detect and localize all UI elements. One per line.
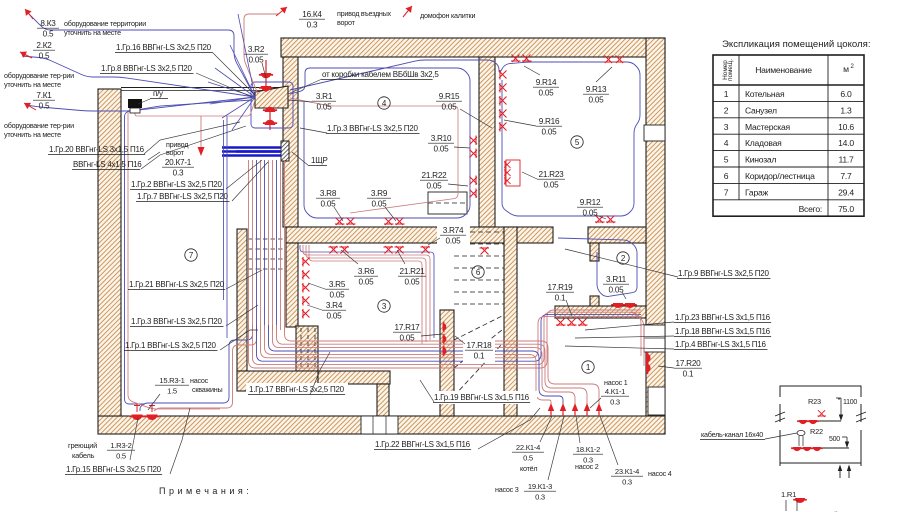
svg-text:1.Гр.20 ВВГнг-LS 3х1,5 П16: 1.Гр.20 ВВГнг-LS 3х1,5 П16 xyxy=(49,145,145,154)
p/u device black square xyxy=(128,99,142,108)
staircase treads xyxy=(454,231,504,233)
garage blue wire xyxy=(125,100,253,404)
svg-text:1.Гр.19 ВВГнг-LS 3х1,5 П16: 1.Гр.19 ВВГнг-LS 3х1,5 П16 xyxy=(434,393,530,402)
through-wall lines to Gr23/18/4 labels xyxy=(585,322,674,330)
svg-text:0.05: 0.05 xyxy=(589,96,605,105)
svg-text:1.Гр.22 ВВГнг-LS 3х1,5 П16: 1.Гр.22 ВВГнг-LS 3х1,5 П16 xyxy=(375,440,471,449)
interior wall below rooms 4-5 (left part) xyxy=(286,227,553,243)
door in right wall bottom xyxy=(648,387,665,415)
svg-text:1.Гр.15 ВВГнг-LS 3х2,5 П20: 1.Гр.15 ВВГнг-LS 3х2,5 П20 xyxy=(66,465,162,474)
fan wires into panel from left/top xyxy=(238,14,255,97)
room1 floor riser arrows xyxy=(550,406,552,416)
svg-text:3: 3 xyxy=(724,122,729,132)
svg-text:греющий: греющий xyxy=(68,441,97,450)
svg-text:оборудование территории: оборудование территории xyxy=(64,19,146,28)
privod vorot red drop xyxy=(200,116,202,148)
svg-text:0.3: 0.3 xyxy=(173,169,184,178)
entry vertical wall xyxy=(283,57,298,227)
svg-text:0.05: 0.05 xyxy=(427,182,443,191)
room2 west wall upper xyxy=(590,243,599,261)
south wall west part xyxy=(237,371,318,391)
top exterior wall xyxy=(281,38,665,57)
svg-text:Котельная: Котельная xyxy=(745,89,785,99)
riser to arrow 5 xyxy=(285,325,600,404)
svg-text:5: 5 xyxy=(724,155,729,165)
svg-text:насос: насос xyxy=(190,376,209,385)
svg-text:21.R23: 21.R23 xyxy=(539,170,565,179)
svg-text:0.5: 0.5 xyxy=(523,454,533,463)
right exterior wall xyxy=(646,38,665,434)
nested cable loops room6/room1 xyxy=(249,310,642,368)
svg-text:0.1: 0.1 xyxy=(474,352,485,361)
svg-text:6.0: 6.0 xyxy=(840,89,852,99)
vent shaft dashes xyxy=(300,328,302,369)
svg-text:0.1: 0.1 xyxy=(683,370,694,379)
svg-text:оборудование тер-рии: оборудование тер-рии xyxy=(4,121,74,130)
svg-text:1.R1: 1.R1 xyxy=(781,490,796,499)
svg-text:0.05: 0.05 xyxy=(583,209,599,218)
sockets room3 left column 3.R5 3.R4 xyxy=(302,257,310,267)
room2 blue loop xyxy=(558,238,637,296)
svg-text:20.К7-1: 20.К7-1 xyxy=(165,158,192,167)
sockets room5 bottom xyxy=(595,216,605,224)
sockets 17.R19 xyxy=(556,319,566,327)
svg-text:17.R18: 17.R18 xyxy=(467,341,493,350)
room 4 number xyxy=(378,97,390,109)
cables exiting to garage xyxy=(140,325,253,411)
wall between rooms 4 and 5 xyxy=(479,57,495,227)
wire bundle: vertical shaft xyxy=(248,160,250,330)
svg-text:скважины: скважины xyxy=(192,385,223,394)
svg-text:ВВГнг-LS 4х1,5 П16: ВВГнг-LS 4х1,5 П16 xyxy=(73,160,142,169)
sockets 3.R8 3.R9 on wall xyxy=(335,218,345,226)
svg-text:1.Гр.16 ВВГнг-LS 3х2,5 П20: 1.Гр.16 ВВГнг-LS 3х2,5 П20 xyxy=(116,43,212,52)
svg-text:0.5: 0.5 xyxy=(43,30,54,39)
svg-text:10.6: 10.6 xyxy=(838,122,854,132)
left outgoing wires xyxy=(27,12,255,97)
svg-text:4.К1-1: 4.К1-1 xyxy=(605,387,625,396)
sockets room5 left column xyxy=(499,70,507,80)
room 3 number xyxy=(378,300,390,312)
svg-text:котёл: котёл xyxy=(520,464,537,473)
svg-text:1.Гр.9 ВВГнг-LS 3х2,5 П20: 1.Гр.9 ВВГнг-LS 3х2,5 П20 xyxy=(678,269,769,278)
svg-text:1100: 1100 xyxy=(843,399,857,406)
svg-text:1.Гр.23 ВВГнг-LS 3х1,5 П16: 1.Гр.23 ВВГнг-LS 3х1,5 П16 xyxy=(675,313,771,322)
svg-text:кабель: кабель xyxy=(72,451,95,460)
svg-text:75.0: 75.0 xyxy=(838,204,854,214)
svg-text:Гараж: Гараж xyxy=(745,187,769,197)
svg-text:0.05: 0.05 xyxy=(609,286,625,295)
svg-text:уточнить на месте: уточнить на месте xyxy=(64,28,121,37)
svg-text:3.R4: 3.R4 xyxy=(326,301,343,310)
svg-text:0.3: 0.3 xyxy=(307,21,318,30)
stair treads over cable shaft xyxy=(248,238,286,240)
sockets 17.R20 right wall xyxy=(646,352,651,364)
sockets 3.R11 xyxy=(611,303,625,308)
svg-text:п/у: п/у xyxy=(153,89,163,98)
cable band into room3 top xyxy=(300,245,434,338)
stairwell east wall xyxy=(504,227,517,416)
sockets room5 top xyxy=(511,55,521,63)
svg-text:1.Гр.2 ВВГнг-LS 3х2,5 П20: 1.Гр.2 ВВГнг-LS 3х2,5 П20 xyxy=(131,180,222,189)
garage gate opening xyxy=(121,87,283,89)
electrical panel block xyxy=(255,86,288,108)
svg-text:1.Гр.3 ВВГнг-LS 3х2,5 П20: 1.Гр.3 ВВГнг-LS 3х2,5 П20 xyxy=(131,317,222,326)
detail: socket mounting heights xyxy=(700,386,872,512)
svg-text:3.R5: 3.R5 xyxy=(329,280,346,289)
svg-text:21.R21: 21.R21 xyxy=(400,267,426,276)
svg-text:9.R16: 9.R16 xyxy=(539,117,560,126)
explication table xyxy=(713,39,870,216)
svg-text:Экспликация помещений цоколя:: Экспликация помещений цоколя: xyxy=(722,39,870,50)
svg-text:1: 1 xyxy=(724,89,729,99)
svg-text:1.Гр.8 ВВГнг-LS 3х2,5 П20: 1.Гр.8 ВВГнг-LS 3х2,5 П20 xyxy=(101,64,192,73)
svg-text:4: 4 xyxy=(724,138,729,148)
room 1 number xyxy=(582,361,594,373)
sockets heating cable garage xyxy=(136,404,138,412)
svg-text:0.05: 0.05 xyxy=(442,103,458,112)
svg-text:2: 2 xyxy=(724,105,729,115)
socket group 21.R23 xyxy=(506,160,520,186)
svg-text:17.R19: 17.R19 xyxy=(548,283,574,292)
svg-text:7: 7 xyxy=(724,187,729,197)
svg-text:0.05: 0.05 xyxy=(359,278,375,287)
svg-text:0.05: 0.05 xyxy=(400,334,416,343)
svg-text:Кинозал: Кинозал xyxy=(745,155,776,165)
sockets 17.R17 17.R18 column xyxy=(443,322,447,333)
svg-text:7.К1: 7.К1 xyxy=(36,91,52,100)
svg-text:0.05: 0.05 xyxy=(405,278,421,287)
domofon arrow xyxy=(403,6,412,17)
room 5 number xyxy=(571,136,583,148)
svg-text:привод въездных: привод въездных xyxy=(337,9,392,18)
garage-east wall xyxy=(237,229,247,371)
svg-text:29.4: 29.4 xyxy=(838,187,854,197)
svg-text:от коробки кабелем ВБбШв 3х2,5: от коробки кабелем ВБбШв 3х2,5 xyxy=(322,70,439,79)
svg-text:7.7: 7.7 xyxy=(840,171,852,181)
svg-text:1.R3-2: 1.R3-2 xyxy=(110,441,131,450)
svg-text:6: 6 xyxy=(724,171,729,181)
svg-text:1.5: 1.5 xyxy=(167,387,177,396)
sockets 3.R6 21.R21 below wall xyxy=(329,246,339,254)
room4 perimeter blue loop xyxy=(290,68,470,218)
garage east wall verticals xyxy=(226,116,228,338)
svg-text:домофон калитки: домофон калитки xyxy=(420,11,475,20)
room 2 number xyxy=(617,252,629,264)
svg-text:1.Гр.3 ВВГнг-LS 3х2,5 П20: 1.Гр.3 ВВГнг-LS 3х2,5 П20 xyxy=(327,124,418,133)
arrow 16.K4 xyxy=(276,7,287,16)
svg-text:0.3: 0.3 xyxy=(610,398,620,407)
svg-text:1.Гр.4 ВВГнг-LS 3х1,5 П16: 1.Гр.4 ВВГнг-LS 3х1,5 П16 xyxy=(675,340,766,349)
svg-text:0.3: 0.3 xyxy=(535,493,545,502)
svg-text:0.05: 0.05 xyxy=(539,89,555,98)
svg-text:0.5: 0.5 xyxy=(39,102,50,111)
window in right wall upper xyxy=(644,125,665,141)
svg-text:П р и м е ч а н и я :: П р и м е ч а н и я : xyxy=(159,486,249,496)
svg-text:500: 500 xyxy=(829,436,840,443)
svg-text:1.Гр.7 ВВГнг-LS 3х2,5 П20: 1.Гр.7 ВВГнг-LS 3х2,5 П20 xyxy=(137,192,228,201)
svg-text:11.7: 11.7 xyxy=(838,155,854,165)
svg-text:Мастерская: Мастерская xyxy=(745,122,791,132)
blue bus bars xyxy=(222,146,281,148)
svg-text:17.R20: 17.R20 xyxy=(676,359,702,368)
svg-text:3.R9: 3.R9 xyxy=(371,189,388,198)
svg-text:1.Гр.18 ВВГнг-LS 3х1,5 П16: 1.Гр.18 ВВГнг-LS 3х1,5 П16 xyxy=(675,327,771,336)
svg-text:1.Гр.17 ВВГнг-LS 3х2,5 П20: 1.Гр.17 ВВГнг-LS 3х2,5 П20 xyxy=(249,385,345,394)
svg-text:0.05: 0.05 xyxy=(446,237,462,246)
svg-text:помещ.: помещ. xyxy=(727,59,734,81)
arrow 2.K2 xyxy=(20,52,32,58)
svg-text:ворот: ворот xyxy=(166,148,185,157)
socket 3.R74 xyxy=(421,246,431,254)
shield box 1ShchR xyxy=(281,141,289,161)
svg-text:насос 2: насос 2 xyxy=(575,462,599,471)
svg-text:22.К1-4: 22.К1-4 xyxy=(516,443,540,452)
svg-text:0.05: 0.05 xyxy=(544,181,560,190)
room1 north wall xyxy=(555,306,646,318)
svg-text:1.3: 1.3 xyxy=(840,105,852,115)
room3 west wall xyxy=(286,243,298,327)
interior wall below room 5 (right part) xyxy=(588,227,646,243)
svg-text:уточнить на месте: уточнить на месте xyxy=(4,130,61,139)
arrow 8.K3 xyxy=(25,9,33,19)
svg-text:3.R10: 3.R10 xyxy=(431,134,452,143)
room2 west wall lower xyxy=(590,296,599,306)
svg-text:14.0: 14.0 xyxy=(838,138,854,148)
panel surround blue box xyxy=(251,82,293,128)
room5 perimeter blue loop xyxy=(290,60,640,216)
bottom exterior wall xyxy=(98,416,665,434)
svg-text:0.1: 0.1 xyxy=(555,294,566,303)
svg-text:R22: R22 xyxy=(810,427,823,436)
room 6 number xyxy=(472,266,484,278)
svg-text:кабель-канал 16х40: кабель-канал 16х40 xyxy=(701,430,763,439)
svg-text:Коридор/лестница: Коридор/лестница xyxy=(745,171,815,181)
svg-text:17.R17: 17.R17 xyxy=(395,323,421,332)
svg-text:9.R15: 9.R15 xyxy=(439,92,460,101)
wall stub to bottom wall xyxy=(377,384,389,416)
svg-text:3.R11: 3.R11 xyxy=(606,275,627,284)
svg-text:0.05: 0.05 xyxy=(434,145,450,154)
svg-text:0.05: 0.05 xyxy=(330,291,346,300)
svg-text:ворот: ворот xyxy=(337,18,356,27)
svg-text:3.R8: 3.R8 xyxy=(320,189,337,198)
svg-text:0.5: 0.5 xyxy=(39,52,50,61)
sockets 21.R22 xyxy=(470,176,478,186)
arrow 7.K1 xyxy=(24,103,36,110)
svg-text:3.R1: 3.R1 xyxy=(316,92,333,101)
svg-text:1.Гр.21 ВВГнг-LS 3х2,5 П20: 1.Гр.21 ВВГнг-LS 3х2,5 П20 xyxy=(129,280,225,289)
right wall socket drops xyxy=(630,312,641,356)
room4 red loop xyxy=(290,98,458,213)
svg-text:0.05: 0.05 xyxy=(542,128,558,137)
svg-text:0.05: 0.05 xyxy=(317,103,333,112)
room 7 number xyxy=(185,249,197,261)
svg-text:Кладовая: Кладовая xyxy=(745,138,782,148)
svg-text:Наименование: Наименование xyxy=(755,65,812,75)
vent shaft block xyxy=(296,326,318,371)
svg-text:9.R12: 9.R12 xyxy=(580,198,601,207)
garage red wire xyxy=(128,112,220,409)
staircase cut lines xyxy=(454,316,502,340)
socket 3.R1 lower xyxy=(263,107,277,112)
stair landing box xyxy=(428,192,467,214)
room3 south wall xyxy=(318,371,390,384)
svg-text:23.К1-4: 23.К1-4 xyxy=(615,467,639,476)
svg-text:18.К1-2: 18.К1-2 xyxy=(576,445,600,454)
svg-text:3.R2: 3.R2 xyxy=(248,45,265,54)
window in right wall (room1 corridor opening) xyxy=(644,325,665,352)
svg-text:21.R22: 21.R22 xyxy=(422,171,448,180)
svg-text:насос 1: насос 1 xyxy=(604,378,628,387)
svg-text:15.R3-1: 15.R3-1 xyxy=(159,376,184,385)
window in bottom wall xyxy=(361,416,398,434)
svg-text:насос 4: насос 4 xyxy=(648,469,672,478)
svg-text:2.К2: 2.К2 xyxy=(36,41,52,50)
svg-text:16.К4: 16.К4 xyxy=(302,10,322,19)
svg-text:3.R6: 3.R6 xyxy=(358,267,375,276)
svg-text:0.05: 0.05 xyxy=(327,312,343,321)
svg-text:насос 3: насос 3 xyxy=(495,485,519,494)
stairwell west wall xyxy=(440,310,454,416)
svg-text:0.5: 0.5 xyxy=(116,452,126,461)
svg-text:Санузел: Санузел xyxy=(745,105,777,115)
svg-text:1ЩР: 1ЩР xyxy=(311,156,328,165)
svg-text:9.R13: 9.R13 xyxy=(586,85,607,94)
svg-text:уточнить на месте: уточнить на месте xyxy=(4,80,61,89)
bottom arrows xyxy=(839,468,841,478)
svg-text:19.К1-3: 19.К1-3 xyxy=(528,482,552,491)
sockets 3.R10 xyxy=(470,136,478,146)
svg-text:R23: R23 xyxy=(808,397,821,406)
svg-text:9.R14: 9.R14 xyxy=(536,78,557,87)
svg-text:Всего:: Всего: xyxy=(799,204,822,214)
svg-text:оборудование тер-рии: оборудование тер-рии xyxy=(4,71,74,80)
svg-text:м: м xyxy=(843,64,849,74)
socket room6 single xyxy=(480,247,490,255)
p/u red wire xyxy=(135,100,255,116)
left exterior wall xyxy=(98,89,121,416)
svg-text:1.Гр.1 ВВГнг-LS 3х2,5 П20: 1.Гр.1 ВВГнг-LS 3х2,5 П20 xyxy=(125,341,216,350)
svg-text:0.3: 0.3 xyxy=(622,478,632,487)
svg-text:3.R74: 3.R74 xyxy=(443,226,464,235)
svg-text:8.К3: 8.К3 xyxy=(40,19,56,28)
socket 3.R2 upper xyxy=(259,73,273,78)
